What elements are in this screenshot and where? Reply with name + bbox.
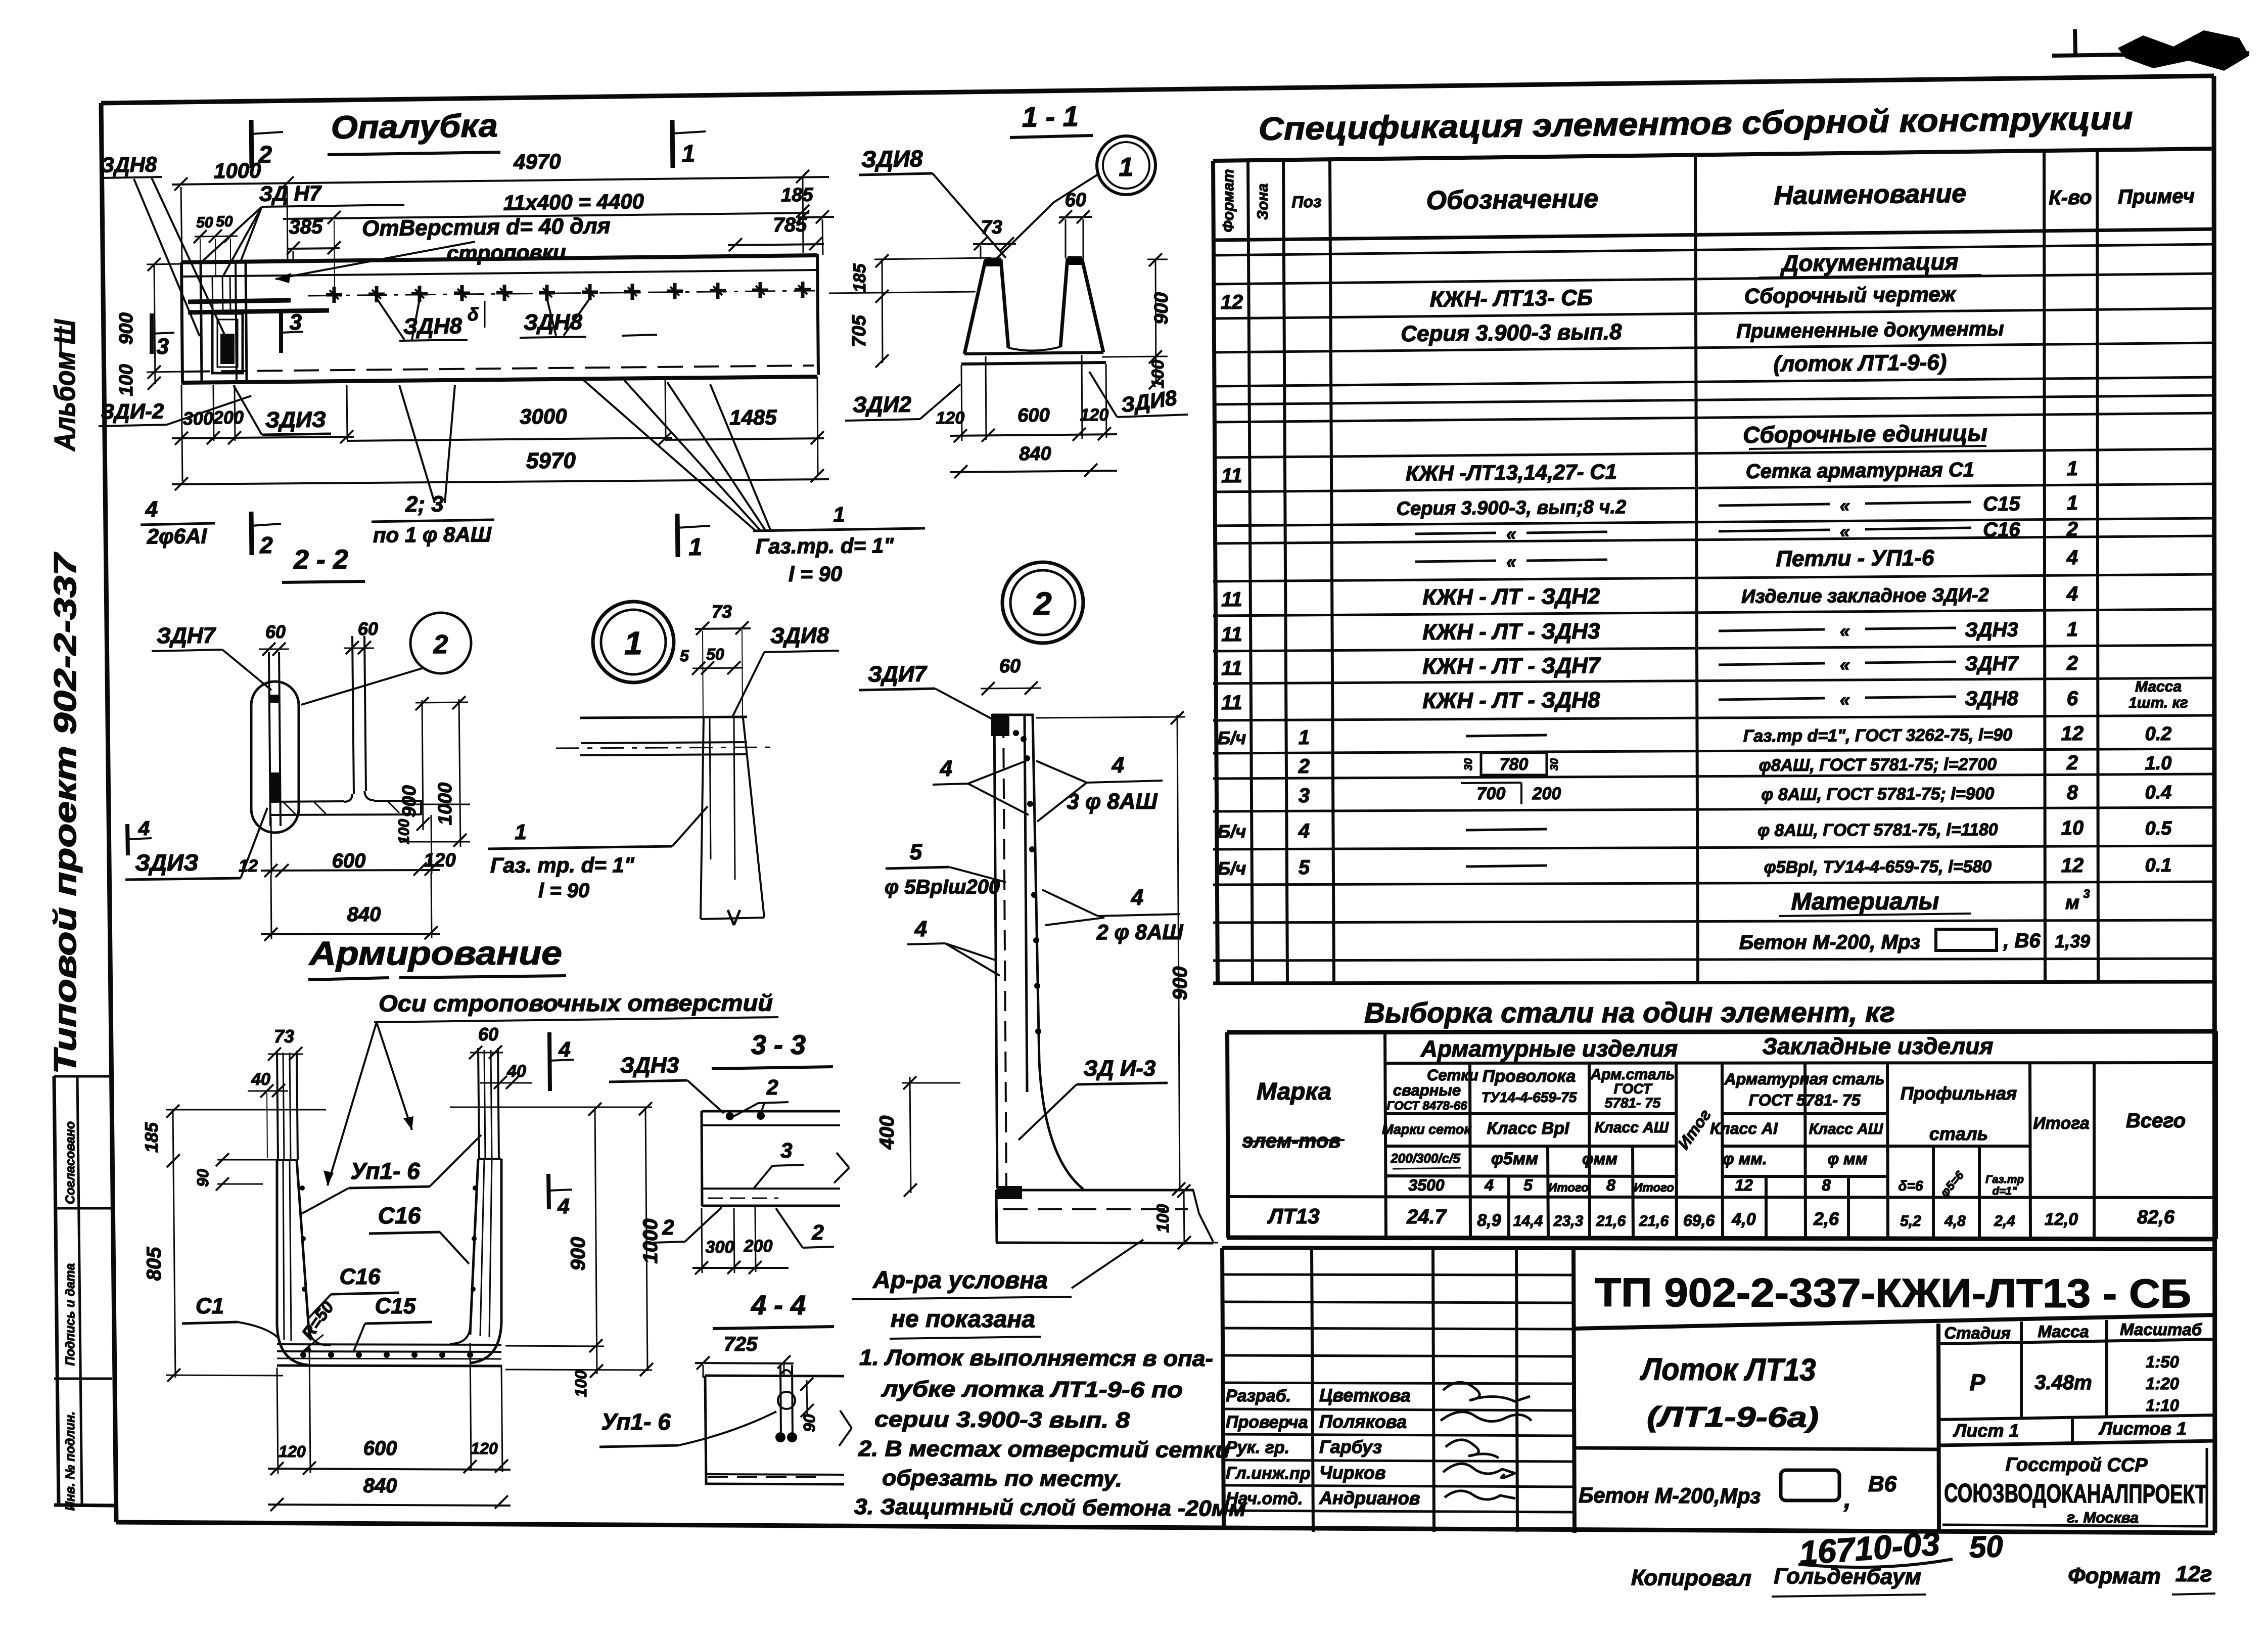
svg-text:300: 300 (706, 1238, 734, 1257)
svg-text:1: 1 (1119, 153, 1134, 182)
svg-text:ЗДН8: ЗДН8 (1965, 688, 2019, 710)
svg-text:10: 10 (2061, 817, 2084, 839)
svg-text:«: « (1506, 551, 1516, 572)
svg-text:Чирков: Чирков (1319, 1462, 1386, 1483)
svg-text:Подпись и дата: Подпись и дата (63, 1263, 77, 1366)
svg-text:900: 900 (116, 312, 137, 344)
section mark 2 top (251, 120, 252, 168)
svg-text:4: 4 (940, 756, 953, 781)
beam right end (817, 254, 818, 375)
svg-text:К-во: К-во (2049, 187, 2092, 209)
2-2 bottom arm (271, 801, 344, 802)
svg-text:12: 12 (2061, 854, 2084, 877)
detail 1 sleeve (701, 718, 704, 919)
svg-text:1: 1 (2067, 492, 2078, 514)
svg-text:200: 200 (744, 1237, 773, 1256)
svg-text:Гольденбаум: Гольденбаум (1774, 1564, 1921, 1589)
svg-text:Марка: Марка (1257, 1078, 1331, 1105)
section flag 2 bottom (251, 512, 252, 555)
svg-text:40: 40 (251, 1070, 270, 1089)
U top level line (166, 1109, 326, 1111)
svg-text:Документация: Документация (1780, 248, 1959, 277)
svg-text:1:50: 1:50 (2146, 1352, 2180, 1371)
svg-text:ГОСТ 8478-66: ГОСТ 8478-66 (1387, 1099, 1468, 1113)
beam second edge (181, 270, 817, 277)
svg-text:(ЛТ1-9-6а): (ЛТ1-9-6а) (1647, 1400, 1819, 1433)
svg-text:1000: 1000 (639, 1219, 662, 1264)
svg-text:11: 11 (1221, 657, 1242, 679)
svg-text:КЖН - ЛТ - ЗДН2: КЖН - ЛТ - ЗДН2 (1422, 584, 1600, 610)
svg-text:φ мм.: φ мм. (1723, 1150, 1767, 1168)
dimension 5970 (172, 479, 829, 484)
svg-text:С16: С16 (1983, 519, 2020, 541)
svg-text:3: 3 (2083, 887, 2090, 901)
svg-text:4: 4 (1484, 1176, 1494, 1194)
title block outer box (1222, 1248, 2216, 1249)
svg-text:73: 73 (981, 217, 1002, 238)
svg-text:3: 3 (1299, 785, 1310, 807)
4-4 УП1-6 loop (780, 1365, 781, 1437)
svg-text:г. Москва: г. Москва (2067, 1510, 2139, 1527)
beam left block ЗДН2 (201, 263, 202, 382)
svg-text:100: 100 (1148, 360, 1168, 389)
svg-text:90: 90 (194, 1169, 212, 1187)
svg-text:С1: С1 (196, 1294, 224, 1318)
svg-text:φ5ВрI, ТУ14-4-659-75, l=580: φ5ВрI, ТУ14-4-659-75, l=580 (1764, 857, 1992, 877)
svg-text:0.1: 0.1 (2145, 855, 2171, 876)
2-2 arm hatch (283, 802, 296, 814)
stage mass scale header (1938, 1339, 2216, 1344)
svg-text:11: 11 (1221, 623, 1242, 646)
svg-text:Лоток ЛТ13: Лоток ЛТ13 (1640, 1352, 1816, 1387)
svg-text:30: 30 (1548, 758, 1560, 770)
svg-text:ЗДН7: ЗДН7 (1965, 653, 2019, 675)
svg-text:Формат: Формат (1220, 169, 1237, 232)
svg-text:φ8АШ, ГОСТ 5781-75; l=2700: φ8АШ, ГОСТ 5781-75; l=2700 (1759, 755, 1997, 775)
section flags 3-3 on beam (150, 313, 154, 354)
svg-text:900: 900 (567, 1237, 589, 1271)
svg-text:Марки сеток: Марки сеток (1382, 1122, 1471, 1137)
svg-text:Р: Р (1970, 1369, 1985, 1395)
svg-text:Б/ч: Б/ч (1218, 727, 1246, 748)
svg-text:185: 185 (850, 263, 869, 293)
svg-text:1: 1 (833, 503, 845, 526)
svg-text:Серия 3.900-3 вып.8: Серия 3.900-3 вып.8 (1401, 320, 1622, 346)
svg-text:400: 400 (876, 1116, 898, 1150)
svg-text:Масштаб: Масштаб (2120, 1320, 2203, 1339)
svg-text:Всего: Всего (2126, 1110, 2186, 1132)
svg-text:2: 2 (766, 1075, 778, 1099)
svg-text:1. Лоток выполняется в опа-: 1. Лоток выполняется в опа- (859, 1345, 1213, 1371)
svg-text:780: 780 (1499, 755, 1528, 774)
svg-text:ГОСТ 5781- 75: ГОСТ 5781- 75 (1749, 1091, 1861, 1109)
1-1 channel left wall (964, 259, 986, 354)
svg-text:Петли - УП1-6: Петли - УП1-6 (1776, 545, 1934, 571)
svg-text:60: 60 (358, 618, 378, 639)
signature squiggles (1443, 1382, 1530, 1401)
svg-text:ЗДИ8: ЗДИ8 (861, 145, 923, 172)
U 90 level lines (217, 1159, 286, 1161)
svg-text:Бетон М-200, Мрз: Бетон М-200, Мрз (1739, 931, 1921, 954)
2-2 dim 840 (261, 934, 440, 934)
beam outline top edge (181, 255, 817, 262)
svg-text:Стадия: Стадия (1944, 1324, 2011, 1342)
svg-text:4: 4 (1298, 820, 1310, 842)
left end dims 900 100 (154, 264, 155, 384)
svg-text:3500: 3500 (1408, 1176, 1444, 1194)
svg-text:2: 2 (2066, 518, 2078, 540)
beam left end (181, 262, 182, 383)
detail 1 beam edge (580, 717, 747, 718)
svg-text:Ар-ра условна: Ар-ра условна (872, 1267, 1048, 1294)
dimension 300 200 under beam (172, 437, 354, 438)
svg-text:60: 60 (265, 621, 286, 642)
svg-text:5,2: 5,2 (1900, 1213, 1921, 1230)
1-1 dim 73 (973, 244, 1016, 244)
pillar body (994, 715, 997, 1188)
svg-text:840: 840 (1019, 443, 1051, 465)
detail 1 dim 73 (695, 628, 751, 629)
svg-text:Сборочный чертеж: Сборочный чертеж (1744, 282, 1957, 308)
svg-text:3: 3 (289, 310, 302, 335)
svg-text:30: 30 (1462, 758, 1474, 770)
svg-text:3. Защитный слой бетона -20мм: 3. Защитный слой бетона -20мм (854, 1494, 1246, 1521)
spec row: сетка С16 (1415, 533, 1496, 534)
svg-text:Лист 1: Лист 1 (1953, 1420, 2019, 1441)
svg-text:Газ. тр. d= 1": Газ. тр. d= 1" (490, 853, 635, 877)
svg-text:82,6: 82,6 (2137, 1207, 2175, 1228)
svg-text:200: 200 (1532, 784, 1561, 803)
svg-text:0.4: 0.4 (2145, 782, 2171, 803)
svg-text:1000: 1000 (214, 158, 261, 183)
title block concrete box (1573, 1448, 1938, 1449)
svg-text:Примеч: Примеч (2118, 185, 2195, 208)
svg-text:ЗДН3: ЗДН3 (620, 1053, 679, 1078)
svg-text:δ: δ (468, 304, 479, 325)
U-section left wall (276, 1160, 279, 1325)
section flag 1 bottom (677, 514, 678, 557)
svg-text:,: , (1843, 1485, 1851, 1513)
svg-text:1: 1 (515, 820, 527, 844)
svg-text:5: 5 (680, 647, 689, 665)
svg-text:100: 100 (1153, 1204, 1173, 1233)
svg-text:4: 4 (2066, 547, 2078, 569)
svg-text:Наименование: Наименование (1774, 179, 1966, 210)
svg-text:50: 50 (196, 214, 213, 231)
svg-text:d=1": d=1" (1993, 1185, 2018, 1197)
svg-text:С15: С15 (1983, 493, 2020, 516)
svg-text:Выборка стали на один элем: Выборка стали на один элемент, кг (1364, 996, 1895, 1028)
svg-text:«: « (1840, 654, 1850, 675)
svg-text:Цветкова: Цветкова (1319, 1385, 1411, 1406)
svg-text:700: 700 (1477, 784, 1506, 803)
svg-text:Зона: Зона (1255, 184, 1271, 220)
section flag 4 lower right (548, 1174, 549, 1209)
3-3 section body (702, 1110, 840, 1113)
dimension 185 right (799, 217, 834, 217)
section flag 1 top (672, 120, 673, 168)
svg-text:2: 2 (2066, 752, 2078, 774)
svg-text:φ мм: φ мм (1828, 1150, 1868, 1168)
svg-text:100: 100 (116, 364, 137, 396)
svg-text:Разраб.: Разраб. (1226, 1386, 1291, 1405)
1-1 channel bottom (964, 352, 1103, 354)
svg-text:100: 100 (396, 819, 412, 844)
svg-text:ЛТ13: ЛТ13 (1267, 1204, 1319, 1228)
foot dim 100 (1184, 1189, 1184, 1245)
svg-text:12,0: 12,0 (2045, 1210, 2078, 1229)
svg-text:не показана: не показана (891, 1306, 1035, 1333)
svg-text:120: 120 (424, 850, 456, 871)
svg-text:Андрианов: Андрианов (1319, 1487, 1420, 1509)
svg-text:4: 4 (1131, 885, 1144, 910)
svg-text:Сборочные единицы: Сборочные единицы (1743, 420, 1987, 448)
svg-text:1,39: 1,39 (2055, 931, 2090, 951)
svg-text:21,6: 21,6 (1596, 1213, 1626, 1230)
svg-text:Закладные изделия: Закладные изделия (1762, 1033, 1993, 1059)
U-section left pin (277, 1051, 278, 1160)
svg-text:0.5: 0.5 (2145, 818, 2172, 839)
svg-text:200/300/с/5: 200/300/с/5 (1390, 1151, 1460, 1166)
svg-text:1: 1 (1299, 726, 1310, 749)
svg-text:69,6: 69,6 (1683, 1211, 1715, 1230)
svg-text:705: 705 (849, 314, 870, 347)
svg-text:2,4: 2,4 (1994, 1213, 2015, 1230)
svg-text:ЗДИЗ: ЗДИЗ (135, 849, 199, 876)
svg-text:6: 6 (2067, 688, 2078, 710)
svg-text:КЖН - ЛТ - ЗДН8: КЖН - ЛТ - ЗДН8 (1422, 688, 1600, 713)
svg-text:Альбом Ш: Альбом Ш (49, 319, 81, 452)
U dim 73 left pin (268, 1054, 303, 1055)
svg-text:8,9: 8,9 (1477, 1211, 1501, 1230)
svg-text:КЖН - ЛТ - ЗДН7: КЖН - ЛТ - ЗДН7 (1422, 653, 1601, 679)
steel table grid (1227, 1031, 2216, 1032)
svg-text:«: « (1840, 689, 1850, 710)
svg-text:120: 120 (279, 1442, 306, 1461)
svg-text:50: 50 (706, 645, 724, 663)
pillar dim 900 right (1177, 715, 1180, 1191)
svg-text:4: 4 (1112, 753, 1125, 778)
2-2 dim 1000 right (459, 699, 460, 847)
U dim 840 (268, 1505, 511, 1506)
svg-text:Класс ВрI: Класс ВрI (1487, 1119, 1570, 1138)
1-1 dim 840 (950, 471, 1117, 472)
svg-text:СОЮЗВОДОКАНАЛПРОЕКТ: СОЮЗВОДОКАНАЛПРОЕКТ (1944, 1479, 2207, 1510)
svg-text:3.48т: 3.48т (2034, 1372, 2092, 1394)
2-2 bottom dims 12 600 120 (261, 870, 440, 871)
signature table rows (1222, 1274, 1573, 1275)
svg-text:840: 840 (363, 1475, 397, 1497)
svg-text:Уп1- 6: Уп1- 6 (601, 1408, 671, 1435)
svg-text:«: « (1506, 523, 1516, 544)
svg-text:11x400 = 4400: 11x400 = 4400 (503, 189, 644, 214)
svg-text:11: 11 (1221, 588, 1242, 611)
1-1 dim 60 (1059, 217, 1092, 217)
svg-text:обрезать по месту.: обрезать по месту. (882, 1466, 1122, 1491)
svg-text:φ 5ВрIш200: φ 5ВрIш200 (885, 876, 1000, 898)
svg-text:12г: 12г (2176, 1562, 2212, 1586)
svg-text:Уп1- 6: Уп1- 6 (350, 1158, 420, 1184)
svg-text:2φ6АI: 2φ6АI (147, 524, 208, 549)
drawing frame border (101, 76, 2214, 103)
svg-text:2: 2 (662, 1215, 674, 1239)
svg-text:Инв. № подлин.: Инв. № подлин. (63, 1412, 77, 1511)
svg-text:Рук. гр.: Рук. гр. (1226, 1438, 1289, 1458)
svg-text:ЗДИ7: ЗДИ7 (868, 662, 928, 687)
2-2 dim 900 right (422, 700, 423, 830)
svg-text:Арматурные изделия: Арматурные изделия (1420, 1035, 1678, 1062)
svg-text:90: 90 (800, 1414, 818, 1432)
svg-text:Проверча: Проверча (1226, 1413, 1308, 1432)
svg-text:Полякова: Полякова (1319, 1411, 1407, 1432)
svg-text:С16: С16 (378, 1202, 421, 1228)
svg-text:Класс АШ: Класс АШ (1595, 1119, 1669, 1136)
svg-text:11: 11 (1221, 692, 1242, 714)
svg-text:Масса: Масса (2038, 1322, 2089, 1341)
svg-text:300: 300 (183, 408, 213, 429)
svg-text:Обозначение: Обозначение (1426, 184, 1598, 215)
signature table columns (1312, 1248, 1313, 1532)
svg-text:600: 600 (1017, 405, 1050, 427)
svg-text:120: 120 (1080, 405, 1108, 425)
svg-text:200: 200 (213, 407, 244, 428)
svg-text:1: 1 (688, 534, 702, 561)
svg-text:5: 5 (1299, 856, 1310, 879)
svg-text:3: 3 (780, 1139, 792, 1162)
left document strip (54, 1076, 59, 1505)
svg-text:600: 600 (363, 1437, 397, 1460)
svg-text:ГОСТ: ГОСТ (1614, 1081, 1653, 1097)
svg-text:900: 900 (399, 785, 420, 817)
svg-text:385: 385 (289, 216, 323, 239)
svg-text:Профильная: Профильная (1901, 1083, 2017, 1104)
svg-text:185: 185 (141, 1122, 162, 1153)
2-2 middle pin (352, 636, 354, 794)
svg-text:Газ.тр: Газ.тр (1985, 1173, 2024, 1186)
svg-text:ОтВерстия d= 40 для: ОтВерстия d= 40 для (362, 213, 611, 241)
svg-text:ЗДН8: ЗДН8 (101, 152, 157, 176)
svg-text:1шт. кг: 1шт. кг (2128, 695, 2188, 712)
svg-text:2 - 2: 2 - 2 (293, 544, 348, 575)
svg-text:В6: В6 (1868, 1472, 1897, 1496)
pillar top plate black (991, 714, 1009, 736)
svg-text:Формат: Формат (2068, 1563, 2161, 1588)
svg-text:серии 3.900-3 вып. 8: серии 3.900-3 вып. 8 (874, 1407, 1130, 1433)
svg-text:С15: С15 (375, 1294, 416, 1318)
svg-text:Класс АI: Класс АI (1710, 1119, 1778, 1137)
svg-text:сварные: сварные (1393, 1081, 1461, 1099)
svg-text:1: 1 (2067, 458, 2078, 480)
svg-text:120: 120 (936, 408, 964, 428)
svg-text:4: 4 (558, 1037, 570, 1061)
svg-text:8: 8 (2067, 782, 2078, 804)
svg-text:4: 4 (2066, 583, 2078, 605)
svg-text:4,8: 4,8 (1944, 1213, 1966, 1230)
svg-text:Итого: Итого (1634, 1181, 1674, 1195)
U left dims 185 805 (173, 1110, 175, 1378)
U bottom dims 120 600 120 (268, 1469, 511, 1470)
svg-text:Изделие закладное ЗДИ-2: Изделие закладное ЗДИ-2 (1741, 584, 1989, 607)
svg-text:Листов 1: Листов 1 (2098, 1418, 2187, 1439)
svg-text:3 - 3: 3 - 3 (751, 1030, 806, 1060)
svg-text:φ5мм: φ5мм (1491, 1149, 1538, 1168)
dimension line 1000/4970 above beam (172, 177, 829, 185)
svg-text:«: « (1840, 620, 1850, 641)
U-section bottom slab (277, 1344, 501, 1345)
svg-text:60: 60 (478, 1024, 498, 1044)
svg-text:2: 2 (433, 630, 448, 659)
svg-text:КЖН - ЛТ - ЗДН3: КЖН - ЛТ - ЗДН3 (1422, 619, 1600, 645)
1-1 channel right wall (1060, 258, 1068, 347)
svg-text:2: 2 (259, 532, 273, 558)
svg-text:840: 840 (347, 903, 381, 926)
dimension 785 right (728, 244, 824, 245)
svg-text:Согласовано: Согласовано (63, 1121, 77, 1204)
dimension 11x400=4400 (283, 213, 809, 219)
svg-text:2 φ 8АШ: 2 φ 8АШ (1096, 920, 1183, 944)
svg-text:ЗДИ-2: ЗДИ-2 (101, 399, 164, 423)
svg-text:ЗДН3: ЗДН3 (1965, 619, 2018, 642)
svg-text:5970: 5970 (526, 448, 576, 474)
svg-text:0.2: 0.2 (2145, 723, 2171, 745)
title block name box (1938, 1324, 1939, 1530)
1-1 bottom dims 120 600 120 (950, 434, 1117, 436)
svg-text:24.7: 24.7 (1406, 1206, 1447, 1228)
svg-text:21,6: 21,6 (1639, 1213, 1669, 1230)
svg-text:725: 725 (724, 1333, 758, 1355)
svg-text:Опалубка: Опалубка (331, 107, 498, 146)
svg-text:φ 8АШ, ГОСТ 5781-75; l=900: φ 8АШ, ГОСТ 5781-75; l=900 (1761, 784, 1994, 804)
svg-text:60: 60 (999, 656, 1021, 677)
svg-text:Газ.тр d=1", ГОСТ 3262-75, l=9: Газ.тр d=1", ГОСТ 3262-75, l=90 (1743, 725, 2013, 746)
svg-text:14,4: 14,4 (1513, 1213, 1543, 1230)
beam axis dashed (184, 366, 814, 372)
svg-text:4: 4 (145, 497, 158, 522)
svg-text:ЗДИ2: ЗДИ2 (853, 392, 912, 417)
svg-text:2: 2 (1298, 755, 1310, 778)
svg-text:2; 3: 2; 3 (405, 492, 444, 517)
svg-text:4 - 4: 4 - 4 (751, 1290, 806, 1321)
spec row: петли УП1-6 (1415, 561, 1496, 562)
svg-text:1: 1 (681, 141, 695, 167)
svg-text:60: 60 (1064, 190, 1086, 211)
svg-text:50: 50 (1969, 1529, 2004, 1564)
pillar rebar dots (1024, 755, 1030, 761)
svg-text:(лоток ЛТ1-9-6): (лоток ЛТ1-9-6) (1773, 350, 1947, 376)
big circle 2 detail callout (1002, 562, 1083, 643)
svg-text:Б/ч: Б/ч (1218, 858, 1246, 879)
svg-text:23,3: 23,3 (1553, 1213, 1584, 1230)
svg-text:Серия 3.900-3, вып;8 ч.2: Серия 3.900-3, вып;8 ч.2 (1396, 496, 1626, 519)
svg-text:2. В местах отверстий сетки: 2. В местах отверстий сетки (858, 1436, 1230, 1463)
svg-text:5: 5 (1523, 1176, 1533, 1194)
svg-text:73: 73 (712, 601, 732, 622)
svg-text:ЗД И-3: ЗД И-3 (1083, 1056, 1155, 1081)
svg-text:2,6: 2,6 (1813, 1208, 1839, 1229)
svg-text:ЗДН7: ЗДН7 (157, 623, 217, 649)
svg-text:лубке лотка ЛТ1-9-6 по: лубке лотка ЛТ1-9-6 по (881, 1377, 1183, 1402)
svg-text:Сетка арматурная С1: Сетка арматурная С1 (1746, 459, 1975, 483)
U-section rebar dots (300, 1352, 306, 1358)
U-section right wall (500, 1159, 503, 1322)
svg-text:Примененные документы: Примененные документы (1736, 317, 2004, 342)
svg-text:8: 8 (1606, 1176, 1615, 1194)
1-1 dims 185 705 left (882, 259, 883, 363)
svg-text:Проволока: Проволока (1483, 1067, 1576, 1086)
svg-text:2: 2 (811, 1220, 823, 1244)
U-section right pin (478, 1048, 479, 1159)
svg-text:185: 185 (781, 185, 814, 206)
